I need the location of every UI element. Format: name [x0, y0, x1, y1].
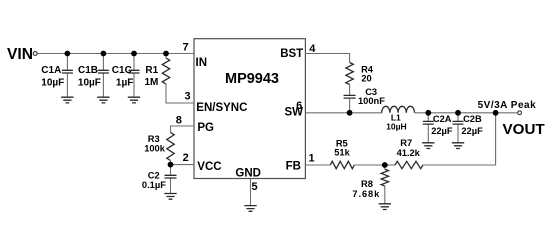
- wire VCC node to pin 2 VCC: [171, 164, 195, 166]
- svg-text:20: 20: [361, 74, 371, 84]
- resistor R3: [167, 133, 174, 161]
- wire R1 to pin 3 EN/SYNC: [166, 84, 194, 103]
- svg-text:1µF: 1µF: [116, 78, 133, 89]
- ground (C2B): [452, 143, 464, 149]
- junction node 7: [425, 110, 431, 116]
- ground (C1B): [97, 97, 109, 103]
- inductor L1: [382, 106, 415, 113]
- svg-text:10µH: 10µH: [386, 122, 407, 132]
- wire R5 to FB node: [354, 164, 395, 166]
- VOUT terminal: [518, 111, 522, 115]
- junction node 3: [131, 51, 137, 57]
- capacitor C3: [344, 95, 356, 98]
- svg-text:PG: PG: [197, 122, 214, 134]
- svg-text:VCC: VCC: [197, 161, 221, 173]
- junction node 4: [163, 51, 169, 57]
- wire pin 6 SW to L1: [305, 112, 381, 114]
- svg-text:3: 3: [184, 91, 190, 103]
- svg-text:0.1µF: 0.1µF: [142, 180, 166, 190]
- svg-text:R8: R8: [361, 179, 373, 189]
- svg-text:C2B: C2B: [463, 114, 482, 124]
- wire pin 4 BST to R4: [305, 54, 349, 63]
- wire pin 1 FB to R5: [305, 164, 330, 166]
- svg-text:R7: R7: [400, 138, 412, 148]
- capacitor C1C: [129, 54, 140, 98]
- svg-text:22µF: 22µF: [431, 126, 453, 136]
- capacitor C2B: [453, 113, 464, 143]
- svg-text:VOUT: VOUT: [503, 121, 546, 138]
- capacitor C2A: [423, 113, 434, 143]
- wire pin 5 GND: [250, 179, 252, 206]
- svg-text:C1A: C1A: [41, 65, 61, 76]
- svg-text:41.2k: 41.2k: [397, 148, 421, 158]
- svg-text:1: 1: [308, 153, 314, 165]
- svg-text:GND: GND: [235, 167, 261, 179]
- junction node 6: [347, 110, 353, 116]
- svg-text:C2A: C2A: [433, 114, 452, 124]
- svg-text:MP9943: MP9943: [225, 71, 279, 87]
- svg-text:7.68k: 7.68k: [352, 189, 380, 199]
- svg-text:R1: R1: [145, 65, 158, 76]
- ground (pin 5): [244, 206, 256, 212]
- ground (C1C): [128, 97, 140, 103]
- ground (C2A): [422, 143, 434, 149]
- svg-text:EN/SYNC: EN/SYNC: [196, 102, 247, 114]
- svg-text:5: 5: [252, 181, 258, 193]
- resistor R1: [162, 54, 169, 85]
- wire R7 up to VOUT rail: [423, 113, 496, 165]
- wire R3 to VCC node: [170, 161, 172, 165]
- ground (C1A): [61, 97, 73, 103]
- svg-text:10µF: 10µF: [78, 78, 101, 89]
- ground (R8): [379, 204, 391, 210]
- svg-text:22µF: 22µF: [461, 126, 483, 136]
- wire R4 to C3: [349, 85, 351, 96]
- svg-text:C1B: C1B: [78, 65, 98, 76]
- capacitor C2: [165, 165, 177, 194]
- resistor R7: [395, 161, 423, 168]
- svg-text:4: 4: [309, 43, 316, 55]
- resistor R4: [346, 63, 353, 85]
- svg-text:R3: R3: [148, 134, 160, 144]
- svg-text:100nF: 100nF: [358, 96, 385, 106]
- capacitor C1A: [62, 54, 73, 98]
- svg-text:FB: FB: [286, 160, 301, 172]
- resistor R8: [381, 165, 388, 204]
- VIN terminal: [33, 52, 37, 56]
- wire L1 to VOUT terminal: [415, 112, 518, 114]
- svg-text:6: 6: [296, 100, 302, 112]
- svg-text:2: 2: [183, 152, 189, 164]
- capacitor C1B: [98, 54, 109, 98]
- svg-text:100k: 100k: [144, 143, 166, 153]
- svg-text:IN: IN: [196, 57, 208, 69]
- junction node 2: [101, 51, 107, 57]
- junction node 1: [65, 51, 71, 57]
- wire C3 to SW node: [349, 98, 351, 113]
- svg-text:5V/3A Peak: 5V/3A Peak: [478, 100, 537, 111]
- svg-text:10µF: 10µF: [41, 78, 64, 89]
- junction node 9: [493, 110, 499, 116]
- svg-text:BST: BST: [280, 48, 303, 60]
- junction node 5: [168, 162, 174, 168]
- junction node 8: [455, 110, 461, 116]
- svg-text:VIN: VIN: [7, 46, 33, 63]
- resistor R5: [330, 161, 354, 168]
- wire VIN rail to pin 7 IN: [37, 53, 194, 55]
- junction node 10: [382, 162, 388, 168]
- IC U1 MP9943 body: [194, 39, 305, 179]
- svg-text:8: 8: [176, 114, 182, 126]
- svg-text:C1C: C1C: [112, 65, 132, 76]
- ground (C2): [164, 194, 176, 200]
- svg-text:1M: 1M: [145, 77, 159, 88]
- svg-text:7: 7: [182, 41, 188, 53]
- wire pin 8 PG to R3: [171, 126, 195, 133]
- svg-text:51k: 51k: [334, 148, 350, 158]
